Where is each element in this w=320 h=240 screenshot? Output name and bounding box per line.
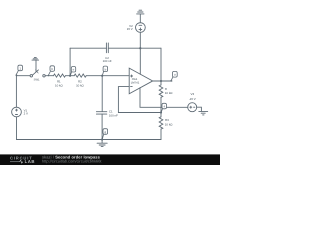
flag anchor dot out — [170, 80, 172, 82]
capacitor C2 — [106, 43, 108, 53]
node flag box b — [50, 66, 55, 72]
wire V1 to bottom rail — [16, 117, 18, 140]
wire C1 to bottom rail — [101, 114, 103, 139]
ground above V2 — [137, 10, 144, 14]
node flag stub f — [161, 109, 162, 112]
svg-text:100 nF: 100 nF — [103, 59, 112, 63]
node flag box out — [173, 71, 178, 77]
svg-text:100 nF: 100 nF — [109, 113, 118, 117]
flag anchor dot b — [48, 75, 50, 77]
svg-text:LAB: LAB — [25, 159, 35, 164]
op-amp output wire — [153, 80, 172, 82]
svg-text:10 kΩ: 10 kΩ — [55, 84, 63, 88]
wire R4 to feedback node — [160, 97, 162, 112]
ground right of V3 — [199, 111, 208, 115]
wire V2 to op-amp V+ pin — [139, 32, 141, 74]
op-amp V- pin wire to V3 — [140, 88, 188, 108]
wire output node down to R4 — [160, 81, 162, 85]
resistor R2 — [74, 74, 86, 77]
feedback wire from - input to divider — [118, 87, 161, 113]
junction output node — [160, 80, 162, 82]
footer bar — [0, 154, 220, 165]
voltage source V3 — [188, 103, 197, 112]
capacitor C1 — [96, 112, 106, 114]
junction node R1-R2/C2 — [69, 75, 71, 77]
junction C1/ground/rail — [101, 138, 103, 140]
wire R2 to op-amp + input — [86, 75, 129, 77]
svg-text:2 V: 2 V — [24, 111, 28, 115]
node flag stub a — [16, 71, 18, 75]
switch SW1 tick — [36, 70, 39, 73]
svg-text:15 V: 15 V — [127, 27, 133, 31]
wire to C2 left plate — [70, 47, 106, 49]
resistor R3 — [159, 117, 163, 129]
wire C2 branch up from R1-R2 node — [69, 48, 71, 75]
voltage source V1 — [12, 107, 22, 117]
CircuitLab logo — [10, 155, 102, 165]
flag anchor dot input corner — [16, 74, 18, 76]
svg-text:V3: V3 — [191, 92, 195, 96]
ground at bottom rail — [97, 140, 107, 147]
wire drop to output node — [160, 48, 162, 81]
junction node R2/C1/op-amp — [101, 75, 103, 77]
svg-text:R3: R3 — [165, 118, 169, 122]
wire R1 to R2 — [65, 75, 74, 77]
junction feedback node — [160, 111, 162, 113]
wire switch to R1 — [45, 75, 53, 77]
wire switch throw to ground — [35, 60, 37, 71]
svg-text:10 kΩ: 10 kΩ — [165, 91, 173, 95]
svg-text:LM741: LM741 — [131, 80, 140, 84]
svg-text:SW1: SW1 — [34, 78, 40, 81]
wire ground to V2 — [139, 14, 141, 23]
node flag stub out — [171, 77, 173, 81]
resistor R4 — [159, 85, 163, 97]
svg-text:10 kΩ: 10 kΩ — [76, 84, 84, 88]
bottom rail wire — [16, 139, 161, 141]
wire input corner to switch — [16, 75, 30, 77]
wire input corner down to V1 — [15, 76, 17, 108]
voltage source V2 — [136, 23, 146, 33]
wire C1 branch down from node — [101, 76, 103, 112]
resistor R1 — [54, 74, 66, 77]
wire R3 to bottom rail — [160, 113, 162, 140]
node flag stub g — [102, 134, 103, 139]
svg-text:http://circuitlab.com/circuit/: http://circuitlab.com/circuit/c6hk66t — [42, 158, 102, 163]
switch SW1 blade — [32, 70, 38, 75]
junction V2/C2 wire crossing — [139, 47, 141, 49]
ground above switch — [32, 57, 39, 60]
node flag box d — [103, 66, 108, 72]
switch SW1 pole — [30, 75, 32, 77]
node flag stub c — [70, 72, 71, 75]
node flag stub d — [102, 72, 103, 76]
node flag box f — [162, 103, 167, 109]
svg-text:-15 V: -15 V — [189, 97, 196, 101]
node flag stub b — [48, 72, 50, 76]
op-amp OA1 triangle — [129, 68, 153, 94]
switch SW1 throw — [43, 75, 45, 77]
wire C2 right plate to output drop — [108, 47, 161, 49]
svg-text:10 kΩ: 10 kΩ — [165, 123, 173, 127]
node flag box a — [18, 65, 23, 71]
node flag box c — [71, 67, 75, 73]
node flag box g — [103, 129, 108, 135]
wire V3 to ground — [197, 107, 202, 111]
